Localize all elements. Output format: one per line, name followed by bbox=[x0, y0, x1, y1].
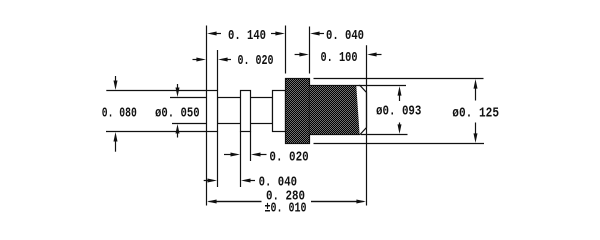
svg-text:ø0. 050: ø0. 050 bbox=[155, 105, 200, 121]
svg-text:±0. 010: ±0. 010 bbox=[265, 201, 307, 217]
svg-text:0. 100: 0. 100 bbox=[321, 50, 358, 66]
svg-text:0. 080: 0. 080 bbox=[102, 105, 137, 121]
svg-text:ø0. 093: ø0. 093 bbox=[376, 104, 421, 120]
svg-text:ø0. 125: ø0. 125 bbox=[452, 106, 499, 122]
svg-text:0. 140: 0. 140 bbox=[228, 28, 266, 44]
svg-text:0. 020: 0. 020 bbox=[238, 53, 274, 69]
svg-text:0. 040: 0. 040 bbox=[326, 28, 364, 44]
svg-text:0. 020: 0. 020 bbox=[269, 150, 308, 166]
